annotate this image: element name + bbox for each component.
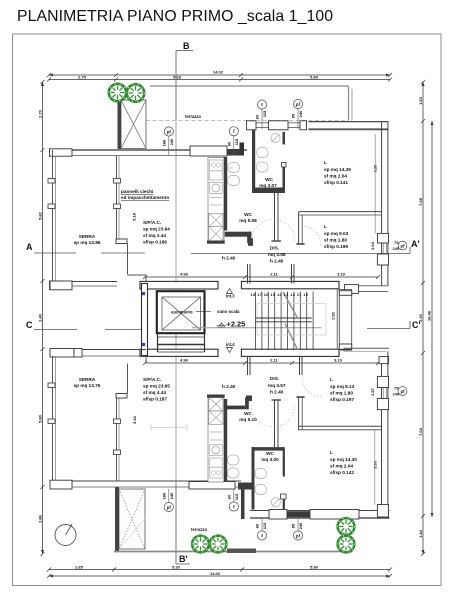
svg-text:5.16: 5.16 [132, 415, 137, 424]
core north wall y281-289 [140, 281, 388, 293]
right vertical dim line 2 (16.46) [431, 121, 433, 517]
svg-text:L: L [330, 450, 333, 455]
section letter A and line [26, 239, 420, 254]
bottom terrace edge [114, 551, 353, 553]
svg-text:240: 240 [169, 492, 174, 499]
label pannelli ciechi [121, 189, 169, 200]
svg-text:5.99: 5.99 [310, 565, 319, 570]
svg-text:+2.25: +2.25 [227, 320, 246, 329]
svg-text:186: 186 [161, 139, 166, 146]
svg-text:2.70: 2.70 [38, 109, 43, 118]
svg-text:2.11: 2.11 [270, 272, 278, 277]
serra / soggiorno divider (upper) [114, 156, 147, 283]
core south wall y349-356 [140, 345, 352, 357]
svg-text:SERRA: SERRA [79, 377, 96, 382]
lower-left bottom wall y480-487 [50, 480, 242, 489]
room label S/P/A.C. lower [143, 377, 170, 402]
svg-text:3.19: 3.19 [334, 358, 343, 363]
lower apartment bottom wall y510-518 [250, 505, 390, 520]
ascensore label with leader [171, 310, 211, 315]
room label DIS lower [268, 376, 286, 395]
svg-text:terrazzo: terrazzo [191, 527, 207, 532]
svg-text:2.11: 2.11 [270, 358, 278, 363]
svg-text:sf/sp 0.187: sf/sp 0.187 [143, 397, 167, 402]
svg-text:h 2.40: h 2.40 [222, 256, 236, 261]
plain circle tree bottom-left [55, 524, 76, 546]
svg-text:2.75: 2.75 [78, 75, 87, 80]
svg-text:L: L [324, 160, 327, 165]
bottom terrace planter bar [227, 549, 256, 554]
serra bottom wall (upper) [50, 281, 118, 290]
svg-text:B': B' [179, 554, 188, 564]
svg-text:h 2.40: h 2.40 [222, 384, 236, 389]
svg-text:L: L [324, 224, 327, 229]
lower WC 3.00 fixtures [255, 469, 280, 507]
svg-text:60: 60 [255, 114, 260, 119]
svg-text:sf mq 1.80: sf mq 1.80 [324, 238, 347, 243]
svg-text:sf mq 2.04: sf mq 2.04 [330, 464, 353, 469]
room label WC 3.07 [259, 177, 277, 188]
blue markers section C [142, 292, 145, 295]
svg-text:PLANIMETRIA PIANO PRIMO _sca: PLANIMETRIA PIANO PRIMO _scala 1_100 [17, 8, 333, 25]
upper kitchen strip [207, 158, 225, 244]
room label WC 5.10 [239, 411, 257, 422]
svg-text:4.96: 4.96 [180, 358, 189, 363]
svg-text:mq 3.57: mq 3.57 [268, 383, 286, 388]
upper WC 3.07 room walls [252, 130, 286, 193]
upper WC 5.08 fixtures [228, 163, 240, 186]
room label L 14.39 [324, 160, 351, 185]
core left wall [142, 284, 148, 356]
svg-text:115: 115 [262, 522, 267, 529]
stairs direction diagonals [283, 292, 298, 350]
svg-text:5.30: 5.30 [172, 565, 181, 570]
svg-text:60: 60 [226, 141, 231, 146]
svg-text:WC: WC [266, 451, 274, 456]
int.3 marker [226, 289, 235, 299]
svg-text:sp mq 14.39: sp mq 14.39 [324, 167, 351, 172]
svg-text:18 17 16 15 14 13 12 11 10: 18 17 16 15 14 13 12 11 10 [251, 292, 309, 297]
svg-text:pf: pf [296, 533, 301, 538]
svg-text:115: 115 [234, 138, 239, 145]
upper WC 3.07 fixtures [257, 133, 281, 172]
upper-left top wall (serra front y150) [50, 143, 248, 157]
window markers lower wall f/pf [161, 489, 174, 512]
svg-text:85: 85 [291, 113, 296, 118]
svg-text:2.50: 2.50 [331, 311, 336, 320]
lower partition stub below stairs [248, 357, 303, 375]
svg-text:terrazzo: terrazzo [185, 114, 201, 119]
svg-text:sf mq 4.44: sf mq 4.44 [143, 390, 166, 395]
faint erased dim [151, 424, 187, 431]
svg-text:5.18: 5.18 [132, 212, 137, 221]
svg-text:sf/sp 0.141: sf/sp 0.141 [324, 180, 348, 185]
svg-text:2.65: 2.65 [75, 565, 84, 570]
bottom dim line segments [49, 569, 390, 571]
elevator ascensore [157, 291, 205, 333]
svg-text:60: 60 [255, 523, 260, 528]
tree top 1 [109, 84, 126, 101]
dim top line segments 2.75 5.28 5.99 [49, 79, 390, 81]
svg-text:5.80: 5.80 [38, 414, 43, 423]
dim labels rotated left/right [38, 96, 432, 538]
room label SERRA lower [74, 377, 101, 388]
svg-text:WC: WC [244, 212, 252, 217]
tree bottom-left 1 [192, 536, 209, 553]
svg-text:sp mq 23.84: sp mq 23.84 [143, 227, 170, 232]
svg-text:S/P/A.C.: S/P/A.C. [143, 377, 161, 382]
svg-text:60: 60 [226, 494, 231, 499]
room label DIS upper [268, 246, 286, 264]
lower kitchen strip [207, 395, 225, 483]
room label WC 5.08 [239, 212, 257, 223]
window marker 75/240 pf (right, lower) [393, 386, 407, 397]
svg-text:16.46: 16.46 [427, 310, 432, 321]
svg-text:240: 240 [169, 138, 174, 145]
svg-text:5.99: 5.99 [310, 75, 319, 80]
stairs treads [256, 292, 314, 351]
svg-text:5.82: 5.82 [38, 211, 43, 220]
svg-text:h 2.40: h 2.40 [270, 259, 284, 264]
svg-text:WC: WC [265, 177, 273, 182]
serra left wall (lower) [53, 356, 56, 487]
svg-text:C: C [26, 320, 33, 330]
svg-text:mq 3.58: mq 3.58 [268, 252, 286, 257]
section letter B [176, 41, 193, 484]
svg-text:2.40: 2.40 [38, 313, 43, 322]
svg-text:sp mq 9.03: sp mq 9.03 [324, 231, 349, 236]
lower apartment west wall [241, 483, 245, 520]
stairs faint void outline [257, 304, 326, 336]
svg-text:A': A' [411, 239, 420, 249]
svg-text:pf: pf [167, 129, 172, 134]
svg-text:pf: pf [167, 505, 172, 510]
lower apartment east wall [375, 351, 389, 505]
svg-text:int.3: int.3 [226, 294, 235, 299]
svg-text:240: 240 [393, 392, 400, 397]
svg-text:sf mq 2.04: sf mq 2.04 [324, 174, 347, 179]
dim tick marks [41, 73, 434, 578]
window markers upper wall f/pf [255, 100, 268, 129]
lower kitchen/WC wall x224 [224, 396, 252, 483]
serra / soggiorno divider (lower) [48, 356, 146, 481]
svg-text:186: 186 [161, 492, 166, 499]
svg-text:pf: pf [401, 389, 406, 394]
bottom balcony with X bracing [115, 487, 145, 551]
lower apartment top wall (to terrace) [344, 348, 390, 351]
svg-text:sp mq 13.86: sp mq 13.86 [74, 240, 101, 245]
svg-text:sp mq 13.76: sp mq 13.76 [74, 383, 101, 388]
svg-text:h 2.40: h 2.40 [270, 390, 284, 395]
room label L 14.30 [330, 450, 357, 475]
svg-text:14.02: 14.02 [213, 70, 224, 75]
svg-text:int.4: int.4 [226, 342, 235, 347]
upper DIS partition stubs [248, 264, 295, 284]
top terrace dashed boundary [120, 120, 348, 122]
serra left wall (upper) [48, 150, 61, 290]
svg-text:4.96: 4.96 [180, 272, 189, 277]
right vertical dim line 1 [422, 82, 424, 554]
svg-text:mq 3.00: mq 3.00 [261, 457, 279, 462]
svg-text:sf mq 4.44: sf mq 4.44 [143, 233, 166, 238]
svg-text:2.87: 2.87 [370, 387, 375, 396]
upper corridor wall x273-279 [272, 193, 282, 241]
+2.25 level mark [192, 320, 322, 329]
dim top line 14.02 [49, 74, 390, 76]
tree bottom-right 2 [338, 536, 355, 553]
svg-text:sf mq 1.80: sf mq 1.80 [330, 391, 353, 396]
svg-text:sf/sp 0.197: sf/sp 0.197 [330, 397, 354, 402]
top terrace edge [120, 86, 352, 121]
svg-text:DIS.: DIS. [270, 376, 279, 381]
interior dim line lower (4.96 2.11 3.19) [145, 362, 378, 364]
svg-text:240: 240 [298, 110, 303, 117]
svg-text:pf: pf [401, 243, 406, 248]
svg-text:2.04: 2.04 [370, 241, 375, 250]
svg-text:115: 115 [234, 493, 239, 500]
svg-text:1.44: 1.44 [418, 529, 423, 538]
room label L 9.03 [324, 224, 349, 249]
svg-text:3.19: 3.19 [337, 272, 346, 277]
svg-text:pannelli ciechi: pannelli ciechi [121, 189, 153, 194]
svg-text:ed impacchettamento: ed impacchettamento [121, 195, 169, 200]
room label SERRA upper [74, 234, 101, 245]
lower door arcs [251, 378, 321, 428]
section letter C and line [26, 320, 421, 330]
svg-text:240: 240 [393, 246, 400, 251]
svg-text:sf/sp 0.199: sf/sp 0.199 [324, 244, 348, 249]
svg-text:pf: pf [296, 102, 301, 107]
svg-text:75: 75 [394, 240, 399, 245]
svg-text:SERRA: SERRA [79, 234, 96, 239]
svg-text:sp mq 14.30: sp mq 14.30 [330, 457, 357, 462]
lower L room top wall y426-430 [297, 397, 382, 430]
svg-text:ascensore: ascensore [171, 310, 193, 315]
bottom dim line 14.02 [49, 575, 390, 577]
svg-text:1.53: 1.53 [418, 96, 423, 105]
left vertical dim line [42, 82, 44, 554]
dim labels horizontal [75, 70, 346, 577]
top-right apartment east wall x381-388 [375, 122, 388, 287]
svg-text:7.04: 7.04 [418, 427, 423, 436]
svg-text:115: 115 [262, 110, 267, 117]
top balcony with X bracing [118, 97, 147, 149]
room label L 9.13 [330, 377, 355, 402]
tree bottom-right 1 [338, 518, 355, 535]
svg-text:sp mq 23.65: sp mq 23.65 [143, 384, 170, 389]
lower WC 5.10 fixtures [228, 455, 240, 478]
svg-text:7.08: 7.08 [418, 197, 423, 206]
top-right apartment north wall y121-129 [247, 121, 389, 130]
upper partition between L rooms [297, 212, 382, 244]
stairs central landing rail [256, 318, 312, 322]
int.4 marker [226, 342, 235, 353]
lower-left top wall (serra y349) [50, 349, 147, 358]
stair right wall x337-352 [337, 289, 351, 350]
elevator pit walls below [158, 333, 205, 352]
upper kitchen/WC wall x224 [224, 157, 253, 246]
interior dim line upper (4.96 2.11 3.19) [145, 276, 378, 278]
svg-text:75: 75 [394, 386, 399, 391]
svg-text:C': C' [412, 320, 421, 330]
svg-text:mq 3.07: mq 3.07 [259, 183, 277, 188]
svg-text:A: A [26, 242, 33, 252]
svg-text:L: L [330, 377, 333, 382]
svg-text:sp mq 9.13: sp mq 9.13 [330, 384, 355, 389]
svg-text:B: B [183, 41, 190, 51]
svg-text:sf/sp 0.186: sf/sp 0.186 [143, 240, 167, 245]
svg-text:14.02: 14.02 [210, 571, 221, 576]
svg-text:2.86: 2.86 [38, 514, 43, 523]
svg-text:vano scala: vano scala [217, 309, 240, 314]
upper door arcs [251, 220, 321, 246]
window marker 75/240 pf (right, upper) [393, 240, 407, 251]
section letter B' [176, 484, 190, 564]
tree bottom-left 2 [210, 536, 227, 553]
svg-text:240: 240 [298, 522, 303, 529]
svg-text:mq 5.08: mq 5.08 [239, 218, 257, 223]
lower WC 3.00 room walls [252, 400, 287, 510]
room label WC 3.00 [261, 451, 279, 462]
svg-text:85: 85 [291, 523, 296, 528]
svg-text:5.28: 5.28 [173, 75, 182, 80]
svg-text:DIS.: DIS. [270, 246, 279, 251]
svg-text:sf/sp 0.142: sf/sp 0.142 [330, 470, 354, 475]
svg-text:S/P/A.C.: S/P/A.C. [143, 220, 161, 225]
room label S/P/A.C. upper [143, 220, 170, 245]
tree top 2 [127, 84, 144, 101]
svg-text:WC: WC [244, 411, 252, 416]
svg-text:mq 5.10: mq 5.10 [239, 417, 257, 422]
